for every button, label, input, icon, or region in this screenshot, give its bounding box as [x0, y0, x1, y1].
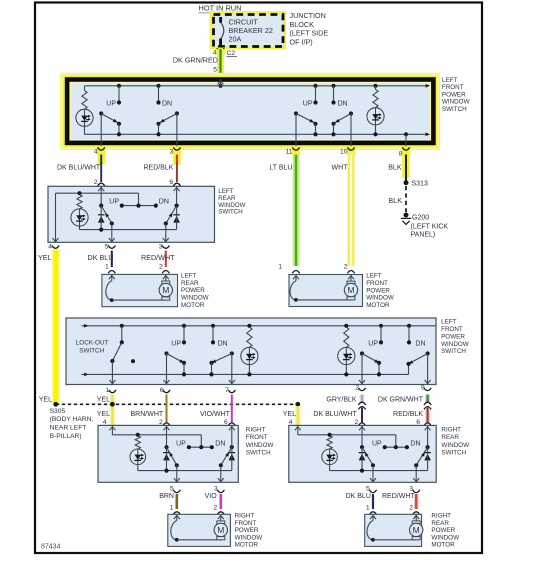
svg-text:RED/WHT: RED/WHT — [141, 253, 175, 262]
box2 UP2 contact — [379, 324, 383, 328]
svg-text:OF I/P): OF I/P) — [290, 37, 313, 46]
wire RED/WHT to left rear motor — [165, 251, 167, 268]
svg-text:M: M — [347, 285, 354, 295]
pin 4 entry arrow — [297, 426, 299, 435]
motor M symbol — [410, 521, 423, 540]
svg-text:8: 8 — [399, 150, 403, 157]
box2 exit connectors — [109, 390, 116, 393]
svg-text:SWITCH: SWITCH — [441, 348, 466, 355]
svg-text:BRN: BRN — [159, 493, 174, 500]
left front power window switch (lower) body — [66, 318, 436, 385]
svg-text:FRONT: FRONT — [442, 84, 464, 91]
svg-text:BLK: BLK — [388, 196, 402, 205]
connector cap — [369, 512, 376, 515]
svg-text:VIO/WHT: VIO/WHT — [200, 411, 231, 418]
splice S313 — [404, 180, 409, 185]
svg-text:11: 11 — [285, 149, 292, 156]
svg-text:MOTOR: MOTOR — [366, 302, 390, 309]
svg-text:LOCK-OUT: LOCK-OUT — [76, 340, 109, 347]
lrs bottom rail — [80, 229, 177, 231]
box2 pin 2 wire — [361, 354, 363, 384]
svg-text:2: 2 — [214, 505, 218, 512]
svg-text:GRY/BLK: GRY/BLK — [326, 396, 357, 403]
box2 pin 6 wire — [166, 354, 168, 384]
box1 illumination LED left — [76, 109, 93, 126]
illumination LED — [322, 449, 338, 465]
svg-text:REAR: REAR — [441, 434, 459, 441]
svg-text:FRONT: FRONT — [235, 520, 257, 527]
lrs bottom pin labels 4 5 3 — [48, 244, 163, 251]
box1 right DN contact — [331, 84, 335, 88]
svg-text:2: 2 — [159, 263, 163, 270]
pin 6 entry arrow — [231, 426, 233, 447]
left front power window switch (upper) body — [67, 80, 433, 143]
regulator arc — [171, 521, 177, 540]
svg-text:WINDOW: WINDOW — [442, 99, 470, 106]
wire YEL box2 pin1 to right front switch — [109, 395, 115, 426]
box2 bottom rail — [82, 373, 409, 375]
box2 UP1 blade — [164, 351, 168, 355]
svg-text:DK BLU: DK BLU — [88, 253, 114, 262]
lrs UP blade — [99, 204, 103, 208]
svg-text:4: 4 — [94, 149, 98, 156]
svg-text:POWER: POWER — [431, 527, 455, 534]
label HOT IN RUN — [198, 4, 241, 13]
svg-text:RED/BLK: RED/BLK — [393, 411, 423, 418]
label G200 (left kick panel) — [411, 215, 449, 239]
motor pin 2 entry arrow — [165, 275, 167, 281]
svg-text:M: M — [413, 525, 420, 535]
svg-text:BLOCK: BLOCK — [290, 20, 315, 29]
lrs UP diode — [98, 215, 105, 223]
lrs pin 6 entry arrow — [176, 187, 178, 206]
wire to motor bottom — [373, 539, 416, 541]
svg-text:LEFT: LEFT — [181, 273, 197, 280]
junction block J1 dashed outline — [214, 15, 284, 47]
box2 exit pin labels 1 6 7 2 9 — [106, 384, 425, 394]
Right Front Window Switch body — [98, 425, 238, 482]
lrs illumination LED — [71, 209, 88, 226]
wire RED/BLK to right rear switch — [425, 408, 430, 424]
wire BRN to right front motor — [176, 494, 179, 509]
svg-text:DN: DN — [159, 198, 169, 205]
motor pin 1 entry arrow — [295, 275, 297, 281]
box1 supply entry from pin 5 — [220, 79, 222, 86]
wire VIO to right front motor — [220, 494, 223, 509]
svg-text:SWITCH: SWITCH — [218, 209, 242, 216]
svg-text:S313: S313 — [412, 181, 428, 188]
svg-text:B-PILLAR): B-PILLAR) — [50, 433, 82, 440]
svg-text:POWER: POWER — [181, 287, 205, 294]
svg-text:WINDOW: WINDOW — [235, 534, 263, 541]
svg-text:4: 4 — [289, 419, 293, 426]
svg-text:POWER: POWER — [441, 333, 465, 340]
illumination resistor — [328, 433, 332, 437]
svg-text:5: 5 — [170, 485, 174, 492]
wire DK BLU/WHT pin4 to left rear switch — [97, 155, 105, 165]
svg-text:UP: UP — [176, 441, 186, 448]
motor box outline — [168, 514, 231, 546]
wire BRN/WHT to right front switch — [166, 395, 168, 424]
svg-text:POWER: POWER — [442, 91, 466, 98]
connector cap — [413, 512, 420, 515]
svg-text:POWER: POWER — [235, 527, 259, 534]
svg-text:DK GRN/RED: DK GRN/RED — [173, 56, 218, 65]
box1 right UP blade — [294, 111, 298, 115]
box1 illumination resistor right — [373, 84, 377, 88]
svg-text:3: 3 — [169, 149, 173, 156]
bottom pin labels 5 3 — [170, 485, 218, 492]
Right Rear Window Switch body — [289, 425, 436, 482]
svg-text:RED/BLK: RED/BLK — [144, 164, 174, 171]
left rear window switch body — [48, 186, 215, 242]
svg-text:DK BLU/WHT: DK BLU/WHT — [313, 411, 357, 418]
wire DK GRN/WHT box2 pin9 — [425, 395, 430, 403]
box2 pin 1 wire — [111, 361, 113, 384]
svg-text:LT BLU: LT BLU — [269, 164, 292, 171]
box2 illumination resistor left — [247, 324, 251, 328]
svg-text:DN: DN — [410, 441, 420, 448]
svg-text:WINDOW: WINDOW — [366, 295, 394, 302]
connector cap at switch pin 5 — [217, 74, 224, 77]
box1 left UP blade — [99, 111, 103, 115]
pin 2 entry arrow — [361, 426, 363, 447]
wire RED/BLK pin3 to left rear switch — [173, 155, 181, 165]
svg-text:2: 2 — [355, 419, 359, 426]
svg-text:LEFT: LEFT — [366, 273, 382, 280]
svg-text:FRONT: FRONT — [441, 326, 463, 333]
box1 pin connector — [172, 146, 181, 155]
box2 illumination LED right — [338, 347, 355, 364]
lrs pin 2 entry arrow — [100, 187, 102, 206]
svg-text:SWITCH: SWITCH — [76, 347, 105, 354]
svg-text:JUNCTION: JUNCTION — [290, 11, 326, 20]
box2 DN2 contact — [407, 324, 411, 328]
box1 left DN blade — [175, 111, 179, 115]
svg-text:S305: S305 — [50, 408, 66, 415]
connector cap — [162, 271, 169, 274]
svg-text:2: 2 — [159, 419, 163, 426]
motor pin 2 entry arrow — [415, 515, 417, 521]
svg-text:BRN/WHT: BRN/WHT — [131, 411, 164, 418]
svg-text:6: 6 — [169, 179, 173, 186]
box1 illumination LED right — [367, 108, 384, 125]
svg-text:5: 5 — [213, 67, 217, 74]
svg-text:(LEFT KICK: (LEFT KICK — [411, 223, 449, 230]
box2 DN1 blade — [230, 351, 234, 355]
connector C2 pin 4 — [216, 48, 225, 55]
svg-text:DN: DN — [338, 100, 348, 107]
box1 pin 8 ground tap — [404, 132, 408, 136]
svg-text:87434: 87434 — [41, 544, 61, 551]
connector cap — [217, 512, 224, 515]
svg-text:FRONT: FRONT — [246, 434, 268, 441]
svg-text:5: 5 — [366, 485, 370, 492]
svg-text:SWITCH: SWITCH — [441, 449, 466, 456]
supply rail — [112, 434, 201, 436]
svg-text:MOTOR: MOTOR — [181, 302, 205, 309]
svg-text:REAR: REAR — [431, 520, 449, 527]
svg-text:RIGHT: RIGHT — [235, 513, 255, 520]
svg-text:RIGHT: RIGHT — [246, 427, 266, 434]
motor M symbol — [159, 281, 172, 300]
motor pin 1 entry arrow — [111, 275, 113, 281]
svg-text:YEL: YEL — [97, 411, 110, 418]
DN diode — [424, 453, 431, 461]
pin 5 wire — [176, 465, 178, 482]
svg-text:2: 2 — [344, 263, 348, 270]
svg-text:POWER: POWER — [366, 287, 390, 294]
svg-text:WINDOW: WINDOW — [441, 442, 469, 449]
left front power window switch (upper) highlight — [60, 73, 440, 150]
svg-text:UP: UP — [303, 100, 313, 107]
lock-out switch — [120, 324, 124, 328]
motor pin 2 entry arrow — [350, 275, 352, 281]
svg-text:LEFT: LEFT — [441, 319, 457, 326]
svg-text:4: 4 — [103, 419, 107, 426]
splice S305 bus — [56, 403, 298, 405]
inline connector — [424, 402, 431, 405]
svg-text:BLK: BLK — [388, 164, 402, 171]
svg-text:20A: 20A — [229, 34, 242, 43]
lrs bottom connectors — [52, 246, 59, 249]
connector cap — [228, 423, 235, 426]
bottom pin labels 5 3 — [366, 485, 413, 492]
svg-text:(BODY HARN,: (BODY HARN, — [50, 416, 94, 423]
svg-text:MOTOR: MOTOR — [431, 542, 455, 549]
connector cap — [358, 423, 365, 426]
motor pin 1 entry arrow — [372, 515, 374, 521]
DN diode — [229, 453, 236, 461]
svg-text:2: 2 — [94, 179, 98, 186]
svg-text:DN: DN — [162, 100, 172, 107]
box1 pin connector — [402, 146, 411, 155]
box1 top supply rail — [85, 85, 429, 87]
lrs link — [122, 205, 156, 207]
DN blade — [426, 445, 430, 449]
link — [189, 446, 212, 448]
svg-text:1: 1 — [278, 263, 282, 270]
illumination LED — [130, 449, 146, 465]
svg-text:FRONT: FRONT — [366, 280, 388, 287]
circuit breaker 22 symbol — [221, 17, 224, 47]
pin 3 wire — [415, 465, 417, 482]
wire LT BLU pin11 to left front motor — [293, 155, 300, 267]
svg-text:3: 3 — [409, 485, 413, 492]
motor box outline — [102, 274, 178, 306]
svg-text:RIGHT: RIGHT — [431, 513, 451, 520]
svg-text:YEL: YEL — [283, 411, 296, 418]
svg-text:2: 2 — [409, 505, 413, 512]
svg-text:DK BLU: DK BLU — [346, 493, 371, 500]
svg-text:DK BLU/WHT: DK BLU/WHT — [57, 164, 101, 171]
svg-text:6: 6 — [224, 419, 228, 426]
wire YEL left rear switch to S305 — [52, 250, 61, 405]
svg-text:UP: UP — [109, 198, 119, 205]
svg-text:WINDOW: WINDOW — [431, 534, 459, 541]
svg-text:NEAR LEFT: NEAR LEFT — [50, 425, 87, 432]
svg-text:UP: UP — [368, 340, 378, 347]
regulator arc — [290, 281, 296, 300]
pin 6 entry arrow — [427, 426, 429, 447]
connector cap — [98, 183, 105, 186]
box1 pin 10 pivot wire — [350, 114, 352, 148]
box1 pin connector — [97, 146, 106, 155]
svg-text:G200: G200 — [412, 215, 429, 222]
svg-text:1: 1 — [105, 263, 109, 270]
wire BLK S313 to G200 (unhighlighted) — [405, 186, 407, 212]
wire DK BLU to left rear motor — [111, 251, 113, 268]
connector cap — [163, 423, 170, 426]
box2 pin 9 wire — [427, 354, 429, 384]
box1 bottom rail — [85, 133, 429, 135]
motor M symbol — [214, 521, 227, 540]
illumination resistor — [136, 433, 140, 437]
lrs supply rail from pin 4 — [56, 192, 139, 194]
svg-text:1: 1 — [366, 505, 370, 512]
svg-text:WINDOW: WINDOW — [246, 442, 274, 449]
svg-text:UP: UP — [171, 340, 181, 347]
svg-text:DK GRN/WHT: DK GRN/WHT — [378, 396, 424, 403]
wire WHT pin10 to left front motor — [348, 155, 355, 267]
svg-text:WINDOW: WINDOW — [441, 341, 469, 348]
wire DK GRN/RED from C2 to switch pin 5 — [217, 49, 224, 76]
UP diode — [359, 453, 366, 461]
pin 3 wire — [220, 465, 222, 482]
pin labels 4 3 11 10 8 — [94, 149, 403, 158]
connector cap — [292, 271, 299, 274]
DN blade — [230, 445, 234, 449]
motor box outline — [365, 514, 422, 546]
svg-text:C2: C2 — [227, 50, 236, 57]
lrs DN blade — [175, 204, 179, 208]
lrs pin 5 wire — [111, 224, 113, 242]
svg-text:YEL: YEL — [97, 396, 110, 403]
wire BLK pin8 to S313 — [402, 155, 410, 179]
regulator arc — [367, 521, 373, 540]
ground G200 — [404, 213, 409, 218]
box1 right DN blade — [349, 111, 353, 115]
connector cap — [108, 271, 115, 274]
box2 UP2 blade — [360, 351, 364, 355]
pin 5 wire — [372, 465, 374, 482]
svg-text:SWITCH: SWITCH — [442, 106, 467, 113]
svg-text:PANEL): PANEL) — [411, 232, 436, 239]
box1 pin 4 pivot wire — [100, 114, 102, 148]
svg-text:UP: UP — [106, 100, 116, 107]
regulator arc — [106, 281, 112, 301]
pin 2 entry arrow — [166, 426, 168, 447]
wire to motor bottom — [296, 299, 351, 301]
svg-text:LEFT: LEFT — [442, 77, 458, 84]
wire YEL bus to right rear switch — [295, 406, 301, 426]
inline connector — [358, 402, 365, 405]
box1 right UP contact — [313, 84, 317, 88]
svg-text:SWITCH: SWITCH — [246, 449, 271, 456]
connector cap — [173, 512, 180, 515]
box2 top supply rail — [82, 325, 437, 327]
svg-text:1: 1 — [170, 505, 174, 512]
svg-text:6: 6 — [416, 419, 420, 426]
wire DK BLU/WHT to right rear switch — [361, 408, 363, 424]
svg-text:3: 3 — [214, 485, 218, 492]
wire DK BLU to right rear motor — [372, 494, 374, 509]
bottom rail — [330, 470, 428, 472]
svg-text:RED/WHT: RED/WHT — [382, 493, 415, 500]
lrs pin 3 wire — [165, 224, 167, 242]
wire GRY/BLK box2 pin2 — [360, 395, 365, 403]
svg-text:REAR: REAR — [181, 280, 199, 287]
motor box outline — [289, 275, 363, 307]
UP blade — [360, 445, 364, 449]
bottom connectors — [173, 490, 180, 493]
box1 pin connector — [292, 146, 301, 155]
svg-text:3: 3 — [159, 244, 163, 251]
UP diode — [163, 453, 170, 461]
UP blade — [164, 445, 168, 449]
motor pin 1 entry arrow — [176, 515, 178, 521]
lrs DN diode — [173, 215, 180, 223]
svg-text:M: M — [217, 525, 224, 535]
svg-text:RIGHT: RIGHT — [441, 427, 461, 434]
box2 pin 7 wire — [231, 354, 233, 384]
svg-text:WINDOW: WINDOW — [181, 295, 209, 302]
box1 pin 3 pivot wire — [176, 114, 178, 148]
svg-text:UP: UP — [372, 441, 382, 448]
link — [385, 446, 407, 448]
motor M symbol — [344, 281, 357, 300]
wire to motor bottom — [177, 539, 221, 541]
svg-text:DN: DN — [215, 441, 225, 448]
svg-text:(LEFT SIDE: (LEFT SIDE — [290, 29, 329, 38]
box2 illumination resistor right — [344, 324, 348, 328]
box2 UP1 contact — [182, 324, 186, 328]
svg-text:10: 10 — [340, 149, 348, 156]
supply rail — [298, 434, 396, 436]
lrs pin 4 wire — [55, 193, 57, 242]
svg-text:DN: DN — [218, 340, 228, 347]
box1 pin connector — [347, 146, 356, 155]
box1 left DN contact — [156, 84, 160, 88]
box1 illumination resistor left — [84, 86, 86, 91]
wire RED/WHT to right rear motor — [414, 494, 419, 509]
svg-text:YEL: YEL — [39, 396, 52, 403]
motor pin 2 entry arrow — [220, 515, 222, 521]
lrs illumination resistor — [77, 191, 81, 195]
pin 4 entry arrow — [111, 426, 113, 435]
svg-text:DN: DN — [415, 340, 425, 347]
svg-text:5: 5 — [105, 244, 109, 251]
box1 pin 11 pivot wire — [295, 114, 297, 148]
junction block highlight — [210, 11, 287, 50]
svg-text:MOTOR: MOTOR — [235, 542, 259, 549]
svg-text:VIO: VIO — [205, 493, 218, 500]
connector cap — [347, 271, 354, 274]
bottom rail — [138, 470, 232, 472]
wire VIO/WHT to right front switch — [231, 395, 233, 424]
bottom connectors — [369, 490, 376, 493]
box2 DN2 blade — [426, 351, 430, 355]
wire to motor bottom — [112, 299, 166, 301]
svg-text:WHT: WHT — [332, 164, 349, 171]
svg-text:M: M — [162, 285, 169, 295]
connector cap — [173, 183, 180, 186]
box2 illumination LED left — [241, 347, 258, 364]
svg-text:YEL: YEL — [38, 253, 52, 262]
box2 DN1 contact — [211, 324, 215, 328]
box1 left UP contact — [117, 84, 121, 88]
connector cap — [424, 423, 431, 426]
